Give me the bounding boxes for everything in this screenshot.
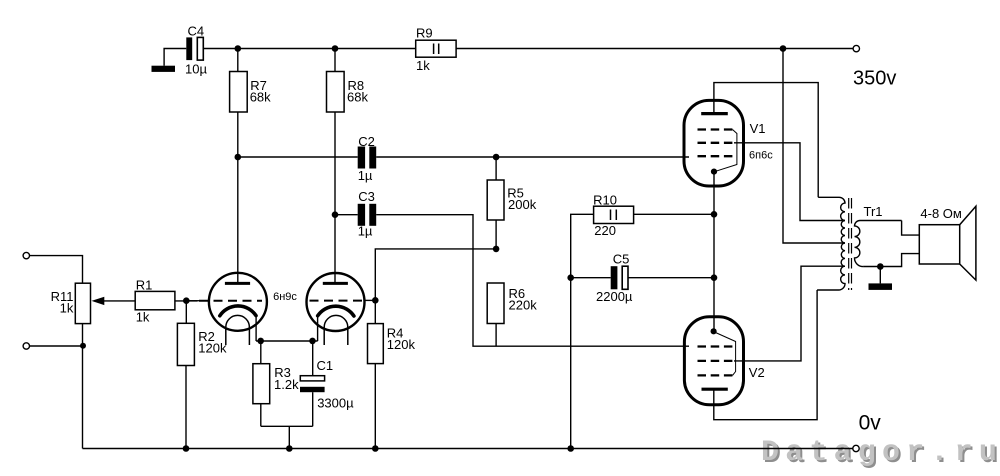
resistor R6 [487, 283, 504, 324]
wire input 1 to R11 top [30, 256, 83, 284]
tube V1 cathode dot [711, 169, 717, 175]
svg-text:4-8 Ом: 4-8 Ом [920, 206, 962, 221]
junction R7 top rail [235, 45, 242, 52]
resistor R10 [594, 206, 634, 223]
wire R2 top lead [185, 301, 187, 324]
tube V2 envelope [684, 317, 743, 405]
resistor R7 [230, 72, 248, 113]
svg-text:220: 220 [594, 223, 616, 238]
wire R8 top lead [334, 49, 336, 72]
wire C5 right lead [628, 277, 714, 279]
svg-text:120k: 120k [198, 341, 227, 356]
R11 wiper arrow [92, 297, 105, 305]
wire R3 bottom lead [260, 404, 262, 427]
wire R5R6 node to R4 node [375, 249, 496, 324]
svg-text:V2: V2 [749, 365, 765, 380]
wire R2 bottom lead [185, 366, 187, 449]
triode V3b grid [310, 300, 365, 302]
svg-text:1.2k: 1.2k [274, 377, 299, 392]
svg-text:6п6с: 6п6с [749, 150, 773, 162]
wire C3 left to R8 node [335, 214, 358, 216]
wire R4 bottom lead [374, 364, 376, 449]
R10 power marks [611, 210, 617, 221]
svg-text:C5: C5 [613, 251, 630, 266]
terminal input top [23, 252, 29, 258]
wire C3 right down to V2 grid [376, 215, 689, 347]
junction secondary ground [877, 263, 884, 270]
svg-text:1k: 1k [60, 301, 74, 316]
wire R10 C5 left node to ground rail [571, 214, 594, 448]
wire C5 left lead [571, 277, 611, 279]
watermark Datagor.ru [761, 436, 1000, 470]
wire R5 bottom lead [495, 220, 497, 249]
svg-text:R10: R10 [593, 192, 617, 207]
junction C3 left node [332, 211, 339, 218]
wire bottom ground rail [83, 448, 853, 450]
triode V3a cathode [220, 306, 256, 316]
wire V1 screen to transformer tap [734, 143, 845, 221]
wire triode V3b grid to junction [365, 299, 376, 301]
junction R2 ground rail [183, 445, 190, 452]
junction R1 R2 grid node [183, 297, 190, 304]
wire top rail left of R9 [203, 48, 415, 50]
junction C2 left node [235, 154, 242, 161]
resistor R8 [327, 72, 345, 113]
triode V3b cathode [318, 306, 354, 316]
svg-text:68k: 68k [250, 89, 271, 104]
ground symbol speaker [869, 283, 893, 290]
svg-text:V1: V1 [750, 121, 766, 136]
capacitor C4 [186, 37, 192, 60]
wire R1 right lead [175, 300, 198, 302]
triode V3a heater [226, 315, 250, 345]
wire V1 cathode to V2 cathode [713, 172, 715, 332]
junction cathode R3 node [257, 338, 264, 345]
wire R6 bottom lead [495, 324, 497, 347]
capacitor C1 [300, 376, 324, 381]
junction C5 left node [567, 274, 574, 281]
capacitor C2 [358, 147, 365, 169]
junction R10 V1 cathode [711, 211, 718, 218]
capacitor C5 [611, 266, 618, 289]
terminal input bottom [23, 343, 29, 349]
R9 power marks [434, 44, 439, 55]
triode V3a anode [225, 282, 250, 285]
wire bias node to ground rail [288, 426, 290, 448]
svg-text:2200µ: 2200µ [596, 289, 633, 304]
junction V2 grid R4 [372, 297, 379, 304]
wire cathode bus between triodes [256, 340, 318, 342]
terminal 350v [853, 45, 859, 51]
svg-text:R9: R9 [416, 26, 433, 41]
svg-text:350v: 350v [853, 68, 896, 90]
wire R8 bottom to triode anode [334, 112, 336, 283]
svg-text:120k: 120k [387, 337, 416, 352]
tube V2 anode [702, 388, 728, 391]
tube V2 beam plate link [716, 333, 736, 376]
svg-text:C4: C4 [188, 24, 205, 39]
svg-text:68k: 68k [347, 89, 368, 104]
svg-text:C2: C2 [358, 134, 375, 149]
wire speaker ground drop [879, 267, 881, 284]
tube V1 anode [701, 112, 728, 115]
wire R5 top lead [495, 157, 497, 180]
wire R11 bottom to ground rail [82, 324, 84, 449]
wire V2 anode to transformer bottom [714, 290, 817, 420]
triode V3b circle [307, 273, 365, 331]
transformer Tr1 secondary winding [855, 221, 902, 267]
wire secondary bottom to speaker [863, 254, 919, 267]
tube V1 beam plate link [716, 130, 737, 172]
wire input 2 [30, 345, 83, 347]
svg-text:C1: C1 [317, 358, 334, 373]
triode V3a grid [186, 300, 199, 302]
tube V2 grids [698, 347, 734, 376]
svg-text:6н9с: 6н9с [273, 291, 297, 303]
junction C2 R5 node [493, 154, 500, 161]
triode V3b anode [323, 282, 348, 285]
resistor R3 [253, 364, 270, 404]
wire C1 bottom lead [312, 392, 314, 426]
wire V1 anode to transformer top [714, 83, 818, 198]
svg-text:10µ: 10µ [185, 62, 207, 77]
svg-text:220k: 220k [509, 297, 538, 312]
junction R8 top rail [332, 45, 339, 52]
terminal 0v [853, 445, 859, 451]
ground symbol input [152, 66, 176, 72]
svg-text:0v: 0v [859, 411, 882, 434]
resistor R9 [416, 40, 456, 57]
svg-text:1µ: 1µ [358, 224, 373, 239]
resistor R4 [368, 324, 384, 364]
wire triode V3a cathode lead [255, 316, 257, 341]
wire secondary top to speaker [902, 221, 920, 236]
svg-text:3300µ: 3300µ [317, 395, 354, 410]
wire C4 left to ground [164, 49, 186, 66]
triode V3a circle [209, 273, 267, 331]
wire R11 wiper to R1 [103, 300, 135, 302]
wire R7 bottom to triode V3a anode [237, 112, 239, 283]
svg-text:1k: 1k [416, 58, 430, 73]
svg-text:C3: C3 [358, 189, 375, 204]
tube V2 cathode dot [711, 328, 717, 334]
speaker horn [960, 206, 976, 280]
junction R4 ground rail [372, 445, 379, 452]
junction C5 ground rail [567, 445, 574, 452]
wire R3 C1 bottom bus [261, 425, 313, 427]
wire top rail right of R9 [456, 48, 853, 50]
junction C5 V1 cathode [711, 274, 718, 281]
wire V2 screen to transformer tap [734, 266, 845, 361]
transformer Tr1 core [849, 198, 852, 290]
junction R5 R6 node [493, 246, 500, 253]
wire B+ branch to transformer tap [783, 49, 845, 244]
wire C1 top lead [312, 341, 314, 376]
resistor R2 [177, 323, 194, 365]
junction cathode C1 node [309, 338, 316, 345]
wire C2 left to R7 node [238, 156, 358, 158]
wire R7 top lead [237, 49, 239, 72]
junction bias ground rail [286, 445, 293, 452]
wire C2 output to V1 grid [376, 156, 689, 158]
wire triode V3b cathode lead [317, 316, 319, 341]
triode V3b heater [324, 315, 348, 345]
wire R10 right lead [634, 213, 714, 215]
svg-text:Tr1: Tr1 [864, 204, 883, 219]
svg-text:1µ: 1µ [358, 168, 373, 183]
svg-text:1k: 1k [136, 310, 150, 325]
svg-text:200k: 200k [508, 197, 537, 212]
speaker box [919, 225, 959, 264]
potentiometer R11 [75, 283, 90, 323]
transformer Tr1 primary winding [817, 197, 845, 290]
tube V1 envelope [684, 100, 744, 186]
resistor R5 [487, 180, 504, 220]
junction R11 bottom [80, 343, 86, 349]
wire R3 top lead [260, 341, 262, 364]
resistor R1 [135, 291, 175, 309]
tube V1 grids [698, 130, 734, 157]
junction B+ branch [780, 45, 787, 52]
svg-text:R1: R1 [136, 278, 153, 293]
capacitor C3 [358, 204, 365, 226]
